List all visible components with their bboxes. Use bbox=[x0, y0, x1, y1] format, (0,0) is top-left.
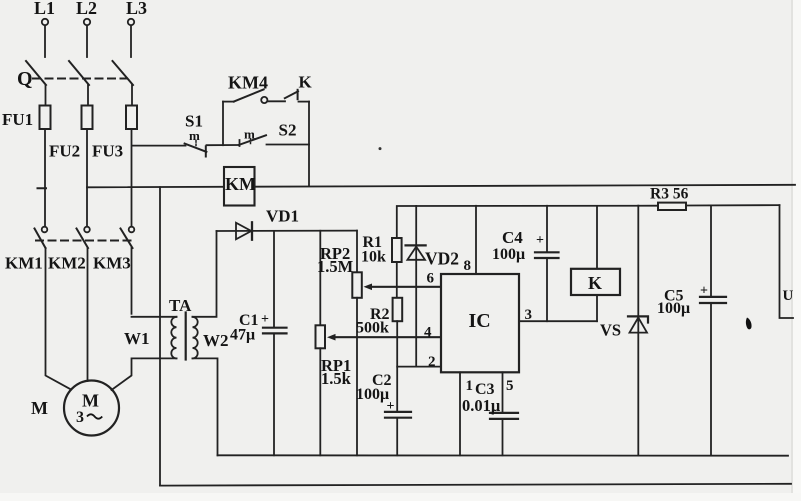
switch Q pole 2 blade bbox=[69, 61, 89, 85]
capacitor C4 bottom lead bbox=[546, 258, 548, 321]
dot speck bbox=[379, 147, 382, 150]
svg-text:M: M bbox=[82, 391, 99, 411]
diode VD1 cathode bar bbox=[251, 222, 253, 239]
resistor R1 body bbox=[392, 238, 402, 262]
svg-text:VD1: VD1 bbox=[266, 207, 299, 226]
wire Q2 to FU2 bbox=[87, 85, 89, 106]
IC pin 6 wire bbox=[370, 286, 441, 288]
contact KM linkage dashed bbox=[36, 240, 134, 242]
capacitor C4 plates bbox=[535, 251, 559, 253]
wire FU1 to KM1 bbox=[44, 129, 46, 227]
wire Q1 to FU1 bbox=[45, 85, 47, 106]
contactor coil KM box bbox=[224, 167, 255, 206]
potentiometer RP1 top lead bbox=[319, 231, 321, 325]
pushbutton S2 blade bbox=[239, 135, 266, 145]
svg-text:Q: Q bbox=[17, 68, 33, 90]
pushbutton S1 contact tick bbox=[205, 146, 207, 156]
potentiometer RP2 wiper arrow bbox=[370, 286, 441, 288]
svg-text:L2: L2 bbox=[76, 0, 97, 18]
motor M circle bbox=[64, 381, 119, 436]
capacitor C4 top lead bbox=[546, 206, 548, 252]
svg-text:KM1: KM1 bbox=[5, 254, 43, 273]
diode VD1 lead bbox=[217, 230, 357, 232]
svg-text:S2: S2 bbox=[279, 121, 297, 140]
potentiometer RP2 bottom lead bbox=[356, 298, 358, 456]
wire R1 to R2 bbox=[396, 262, 398, 298]
capacitor C5 top lead bbox=[710, 205, 712, 296]
wire control S1 feed bbox=[133, 145, 186, 147]
capacitor C1 bottom lead bbox=[273, 334, 275, 456]
wire branch right vertical bbox=[308, 102, 310, 186]
node L2 terminal bbox=[84, 19, 90, 25]
contact KM2 blade bbox=[77, 229, 89, 249]
capacitor C5 plates bbox=[700, 296, 726, 298]
svg-text:47μ: 47μ bbox=[230, 327, 255, 344]
svg-text:500k: 500k bbox=[356, 320, 389, 337]
capacitor C1 top lead bbox=[273, 231, 275, 327]
page right margin bbox=[793, 0, 801, 501]
wire R3 to corner bbox=[686, 204, 780, 206]
contact KM1 blade bbox=[35, 229, 46, 249]
zener VD2 lead bbox=[415, 206, 417, 367]
svg-text:M: M bbox=[31, 398, 48, 418]
switch Q linkage dashed bbox=[33, 78, 126, 80]
zener VD2 triangle bbox=[407, 247, 425, 260]
svg-text:W2: W2 bbox=[203, 331, 229, 350]
IC pin 2 wire bbox=[397, 366, 441, 368]
wire KM2 to motor bbox=[87, 248, 89, 381]
svg-text:R3 56: R3 56 bbox=[650, 186, 689, 203]
wire L2 drop bbox=[86, 25, 88, 57]
wire S1 to branch bbox=[207, 144, 240, 146]
wire long left vertical bbox=[159, 187, 161, 485]
zener VD2 cathode bar bbox=[406, 244, 426, 246]
fuse FU2 bbox=[82, 106, 93, 130]
wire branch top left bbox=[223, 101, 234, 103]
wire output U bbox=[780, 205, 794, 318]
svg-text:4: 4 bbox=[424, 325, 432, 341]
ink blob speck bbox=[746, 318, 752, 330]
svg-text:+: + bbox=[387, 399, 395, 414]
wire branch top right bbox=[299, 101, 310, 103]
transformer TA primary W1 bottom lead bbox=[112, 358, 177, 390]
transformer TA primary W1 winding bbox=[171, 317, 176, 359]
zener VS cathode bar bbox=[628, 316, 648, 322]
svg-text:8: 8 bbox=[464, 258, 472, 274]
capacitor C2 bottom lead bbox=[396, 418, 398, 455]
capacitor C2 plates bbox=[385, 411, 411, 413]
wire between KM4 and K bbox=[268, 100, 286, 102]
diode VD1 triangle bbox=[236, 223, 251, 240]
wire line B start corner bbox=[397, 206, 658, 238]
wire KM3 down bbox=[131, 248, 133, 314]
wire rail stub left bbox=[38, 187, 47, 189]
wire bottom rail outer bbox=[160, 484, 791, 486]
pushbutton S1 actuator dotted bbox=[195, 141, 197, 146]
contact K tick bbox=[297, 90, 299, 99]
wire KM1 to motor bbox=[46, 248, 72, 390]
transformer TA secondary W2 winding bbox=[193, 317, 198, 359]
contact KM3 blade bbox=[121, 229, 133, 249]
capacitor C1 plates bbox=[263, 327, 287, 329]
capacitor C3 bottom lead bbox=[502, 419, 504, 455]
svg-text:+: + bbox=[261, 312, 269, 327]
switch Q pole 1 blade bbox=[26, 61, 46, 85]
svg-text:1.5M: 1.5M bbox=[317, 257, 354, 276]
svg-text:3: 3 bbox=[76, 409, 84, 426]
svg-text:FU2: FU2 bbox=[49, 142, 80, 161]
svg-text:0.01μ: 0.01μ bbox=[462, 396, 501, 415]
pushbutton S2 left tick bbox=[239, 140, 241, 146]
page edge line bbox=[791, 0, 793, 501]
zener VS lead bbox=[637, 206, 639, 456]
contact KM3 fixed point bbox=[129, 227, 135, 233]
relay coil K bottom lead bbox=[596, 295, 598, 321]
svg-text:K: K bbox=[299, 73, 313, 92]
wire branch left vertical bbox=[222, 102, 224, 146]
page bottom margin bbox=[0, 493, 801, 501]
transformer TA primary W1 top lead bbox=[132, 316, 177, 318]
fuse FU3 bbox=[126, 106, 137, 130]
svg-text:IC: IC bbox=[469, 310, 491, 332]
potentiometer RP1 bottom lead bbox=[319, 348, 321, 455]
potentiometer RP1 wiper arrow bbox=[334, 336, 441, 338]
svg-text:FU1: FU1 bbox=[2, 110, 33, 129]
switch Q pole 3 blade bbox=[113, 61, 134, 85]
svg-text:KM: KM bbox=[225, 174, 256, 194]
pushbutton S1 blade bbox=[185, 144, 207, 152]
relay coil K top lead bbox=[596, 206, 598, 269]
svg-text:W1: W1 bbox=[124, 329, 150, 348]
svg-text:KM3: KM3 bbox=[93, 254, 131, 273]
wire L3 drop bbox=[130, 25, 132, 57]
transformer TA secondary W2 bottom lead bbox=[193, 358, 218, 455]
zener VS triangle bbox=[630, 318, 648, 333]
svg-text:K: K bbox=[588, 273, 602, 293]
wire main rail A bbox=[87, 185, 795, 188]
wire S2 to branch right bbox=[267, 144, 310, 146]
svg-text:1: 1 bbox=[466, 378, 474, 394]
IC pin 8 wire bbox=[475, 206, 477, 274]
capacitor C5 bottom lead bbox=[710, 303, 712, 455]
wire FU2 to KM2 bbox=[86, 129, 88, 227]
svg-text:100μ: 100μ bbox=[657, 300, 690, 317]
potentiometer RP2 top lead bbox=[356, 231, 358, 273]
relay coil K box bbox=[571, 269, 620, 295]
potentiometer RP1 body bbox=[316, 325, 326, 348]
svg-text:m: m bbox=[244, 127, 255, 142]
IC pin 3 wire bbox=[519, 320, 597, 322]
svg-text:KM4: KM4 bbox=[228, 73, 268, 93]
wire FU3 to KM3 bbox=[131, 129, 133, 227]
potentiometer RP2 body bbox=[352, 272, 362, 298]
node L3 terminal bbox=[128, 19, 134, 25]
wire R2 down to C2 bbox=[396, 321, 398, 411]
node L1 terminal bbox=[42, 19, 48, 25]
resistor R3 body bbox=[658, 203, 686, 210]
svg-text:FU3: FU3 bbox=[92, 142, 123, 161]
svg-text:100μ: 100μ bbox=[492, 246, 525, 263]
IC pin 4 wire bbox=[334, 336, 441, 338]
svg-text:TA: TA bbox=[169, 296, 192, 315]
fuse FU1 bbox=[40, 106, 51, 130]
svg-text:VD2: VD2 bbox=[425, 249, 459, 269]
contact KM4 blade bbox=[234, 89, 264, 101]
wire bottom rail inner bbox=[218, 454, 789, 456]
IC box bbox=[441, 274, 519, 372]
svg-text:L1: L1 bbox=[34, 0, 55, 18]
svg-text:VS: VS bbox=[600, 321, 621, 340]
svg-text:6: 6 bbox=[427, 271, 435, 287]
contact K blade bbox=[285, 91, 298, 98]
svg-text:5: 5 bbox=[506, 378, 514, 394]
IC pin 5 wire bbox=[502, 372, 504, 412]
svg-text:m: m bbox=[189, 128, 200, 143]
svg-text:10k: 10k bbox=[361, 249, 386, 266]
wire Q3 to FU3 bbox=[131, 85, 133, 106]
contact KM2 fixed point bbox=[84, 227, 90, 233]
svg-text:2: 2 bbox=[428, 354, 436, 370]
svg-text:+: + bbox=[536, 233, 544, 248]
svg-text:3: 3 bbox=[525, 307, 533, 323]
resistor R2 body bbox=[393, 298, 403, 321]
capacitor C3 plates bbox=[490, 412, 518, 414]
pushbutton S2 actuator dotted bbox=[250, 139, 252, 144]
IC pin 1 wire bbox=[459, 372, 461, 455]
wire L1 drop bbox=[44, 25, 46, 57]
svg-text:+: + bbox=[700, 284, 708, 299]
contact KM1 fixed point bbox=[42, 227, 48, 233]
transformer TA secondary W2 top lead bbox=[193, 231, 217, 317]
transformer TA core bbox=[185, 313, 187, 360]
contact KM4 fixed point circle bbox=[261, 97, 267, 103]
svg-text:100μ: 100μ bbox=[356, 386, 389, 403]
svg-text:C4: C4 bbox=[502, 228, 523, 247]
svg-text:KM2: KM2 bbox=[48, 254, 86, 273]
svg-text:1.5k: 1.5k bbox=[321, 369, 352, 388]
svg-text:L3: L3 bbox=[126, 0, 147, 18]
svg-text:U: U bbox=[783, 288, 794, 304]
